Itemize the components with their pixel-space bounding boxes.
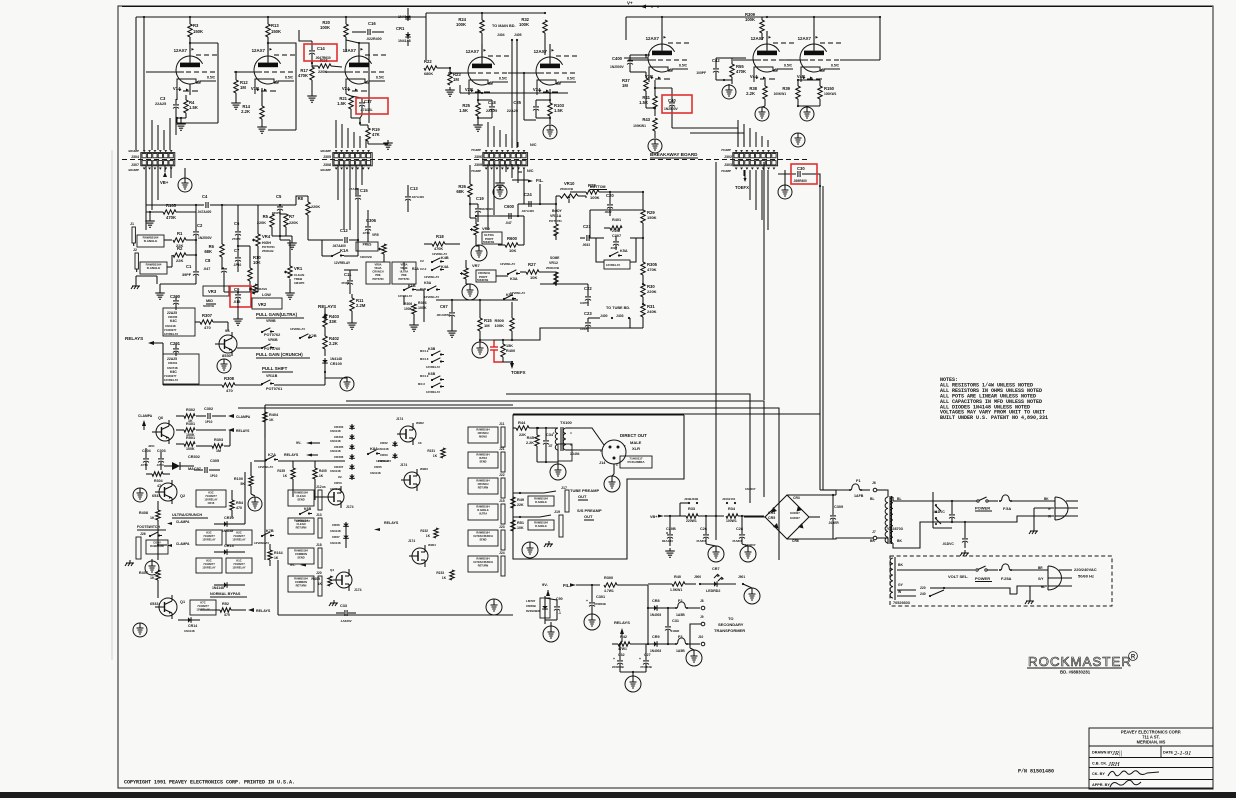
svg-text:2.2M: 2.2M (356, 303, 366, 308)
svg-text:CLAMPA: CLAMPA (176, 542, 190, 546)
ground under J303 circle (778, 185, 792, 199)
svg-text:TOEFX: TOEFX (735, 185, 749, 190)
relay K5A contact2 (427, 289, 429, 291)
resistor R164 1K (268, 550, 272, 560)
svg-text:W902: W902 (416, 421, 424, 425)
svg-text:220K: 220K (647, 289, 657, 294)
resistor R400 15K red-flag (501, 344, 505, 357)
svg-text:+: + (639, 657, 641, 661)
svg-text:C200: C200 (170, 294, 181, 299)
transformer export winding (890, 558, 893, 598)
capacitor C30 red-flag .039R400 (797, 171, 799, 177)
fuse F.5A (999, 500, 1001, 502)
svg-text:C307: C307 (612, 234, 621, 238)
svg-text:.1: .1 (558, 611, 561, 615)
svg-text:R408: R408 (139, 511, 148, 515)
svg-text:82A4B0: 82A4B0 (662, 539, 673, 543)
svg-text:470: 470 (204, 325, 211, 330)
relay K7A contact (265, 459, 267, 461)
svg-text:MALE: MALE (630, 440, 642, 445)
svg-text:J901: J901 (738, 575, 745, 579)
svg-text:.1P10: .1P10 (140, 463, 148, 467)
svg-text:7DJMP: 7DJMP (471, 169, 481, 173)
svg-text:R.ANGLE: R.ANGLE (535, 500, 547, 504)
svg-text:GY: GY (898, 583, 904, 587)
svg-text:CR302: CR302 (188, 455, 200, 459)
ground C67 solid (451, 328, 453, 331)
svg-text:9V-: 9V- (542, 582, 549, 587)
svg-text:2.2M: 2.2M (612, 229, 620, 233)
svg-text:2.2K: 2.2K (329, 341, 338, 346)
svg-text:22A25: 22A25 (486, 109, 497, 113)
svg-text:V2A: V2A (342, 86, 350, 91)
ground V4B lower circle (791, 133, 805, 147)
svg-text:RAWB5164: RAWB5164 (476, 428, 490, 431)
ground rake lowmid (333, 600, 335, 603)
svg-text:270PF: 270PF (232, 237, 241, 241)
board outline lower-left (264, 405, 266, 560)
resistor R12 1M (235, 72, 237, 80)
svg-text:K1B: K1B (420, 287, 427, 291)
wire vertical bus x823 (822, 186, 824, 490)
svg-text:J302: J302 (724, 155, 732, 159)
wire tone block box (590, 210, 604, 238)
resistor R28 100K (586, 190, 599, 194)
diode CR14 (186, 619, 193, 621)
svg-text:C301: C301 (596, 595, 605, 599)
resistor R37 1M (645, 72, 647, 78)
svg-text:R301: R301 (186, 422, 195, 426)
svg-text:ULTRA: ULTRA (479, 513, 487, 516)
resistor R103 1.5K (548, 103, 552, 116)
svg-text:CRUNCH: CRUNCH (372, 270, 383, 274)
svg-text:12VRELAY: 12VRELAY (164, 378, 178, 382)
svg-text:12VRELAY: 12VRELAY (232, 566, 245, 570)
svg-text:71346277: 71346277 (197, 604, 209, 608)
svg-text:BDJMP: BDJMP (320, 168, 331, 172)
svg-text:470: 470 (224, 613, 230, 617)
svg-text:POT5760: POT5760 (372, 277, 384, 281)
resistor R309 100K (761, 17, 763, 20)
resistor R24 100K (480, 20, 484, 33)
svg-text:.47A16L: .47A16L (360, 108, 373, 112)
svg-text:220W1: 220W1 (686, 519, 697, 523)
svg-text:8.5/C: 8.5/C (831, 64, 840, 68)
resistor R23 1M (449, 68, 451, 72)
relay K5B contact top (503, 298, 505, 300)
svg-text:C40: C40 (668, 98, 676, 103)
svg-text:CR100: CR100 (330, 362, 342, 366)
svg-text:J307: J307 (131, 163, 139, 167)
resistor R33 220W1 (686, 514, 698, 518)
ground R100 circle (248, 497, 262, 511)
svg-text:1N4007: 1N4007 (790, 516, 800, 520)
svg-text:NORMAL BYPAS: NORMAL BYPAS (210, 592, 241, 596)
svg-text:K6B: K6B (304, 507, 312, 511)
fuse F2 1A5B (675, 607, 677, 609)
svg-text:ULTRA: ULTRA (400, 270, 409, 274)
title block (1089, 728, 1213, 789)
svg-text:15K: 15K (506, 344, 513, 348)
svg-text:W903: W903 (420, 467, 428, 471)
svg-text:4710R3B: 4710R3B (640, 665, 652, 669)
svg-text:TX100: TX100 (560, 420, 573, 425)
capacitor C16 .022R400 (352, 31, 366, 33)
svg-text:RELAYS: RELAYS (256, 609, 271, 613)
tube V2A 12AX7 triode (345, 56, 372, 84)
svg-text:12VRELAY: 12VRELAY (164, 332, 178, 336)
svg-text:5KHB: 5KHB (400, 266, 407, 270)
svg-text:J201: J201 (148, 444, 155, 448)
wire vr10 feed (539, 184, 541, 204)
tube V4A 12AX7 triode (753, 44, 780, 72)
svg-text:12VRELAY: 12VRELAY (290, 327, 305, 331)
svg-text:F2: F2 (678, 599, 682, 603)
svg-text:R22: R22 (424, 59, 432, 64)
svg-text:W904: W904 (428, 543, 436, 547)
svg-text:1M4/PF: 1M4/PF (294, 281, 305, 285)
svg-text:K4C: K4C (170, 319, 177, 323)
svg-text:RETURN: RETURN (296, 584, 307, 588)
resistor R20 100K (345, 17, 347, 24)
svg-text:1N4007: 1N4007 (745, 487, 756, 491)
red highlight box C17 (356, 98, 388, 114)
transistor Q5 8530 (219, 335, 237, 353)
svg-text:C305: C305 (210, 459, 219, 463)
svg-text:FIL.: FIL. (536, 178, 543, 183)
svg-text:1.5K: 1.5K (554, 108, 563, 113)
transistor Q6 (156, 423, 174, 441)
svg-text:12VRELAY: 12VRELAY (204, 498, 217, 502)
jack J20 COMMON RETURN (288, 576, 314, 592)
svg-text:BL: BL (870, 497, 875, 501)
svg-text:PULL GAIN (CRUNCH): PULL GAIN (CRUNCH) (256, 352, 303, 357)
resistor R31 240K (641, 304, 645, 317)
svg-text:ULTRA: ULTRA (479, 457, 487, 460)
svg-text:10KDVB: 10KDVB (360, 255, 373, 259)
diode CR8 1N4003 (652, 607, 659, 609)
direct-out board outline (513, 415, 684, 559)
svg-text:R39: R39 (782, 86, 790, 91)
svg-text:CR62: CR62 (380, 441, 388, 445)
svg-text:R153: R153 (436, 571, 444, 575)
diode CR100 1N4148 (324, 358, 326, 365)
resistor R405b 1K (313, 468, 317, 479)
svg-text:JRH: JRH (1108, 761, 1120, 768)
relay K4B contact (431, 261, 433, 263)
svg-text:K2B: K2B (309, 334, 317, 338)
svg-text:COPYRIGHT 1991 PEAVEY ELECTRON: COPYRIGHT 1991 PEAVEY ELECTRONICS CORP. … (124, 780, 295, 786)
svg-text:CR201: CR201 (168, 361, 178, 365)
svg-text:CLEAN: CLEAN (297, 494, 306, 498)
svg-text:470: 470 (226, 388, 233, 393)
svg-text:DIRECT OUT: DIRECT OUT (620, 433, 647, 438)
svg-text:1A5B: 1A5B (676, 649, 685, 653)
svg-text:CLAMPA: CLAMPA (138, 414, 153, 418)
transistor Q2 6533 (159, 483, 177, 501)
svg-text:POT0761: POT0761 (266, 387, 282, 391)
svg-text:1.5K: 1.5K (459, 108, 468, 113)
svg-text:RAWB5164: RAWB5164 (534, 520, 548, 524)
svg-text:1M: 1M (484, 323, 490, 328)
svg-text:68K: 68K (456, 189, 464, 194)
relay K1B contact (403, 289, 405, 291)
wire preamp bus a (146, 204, 196, 206)
wire V4B plate (813, 17, 815, 31)
svg-text:50KDVB: 50KDVB (203, 304, 214, 308)
svg-text:12VRELAY: 12VRELAY (426, 365, 440, 369)
svg-text:C14: C14 (317, 46, 325, 51)
svg-text:12AX7: 12AX7 (174, 48, 188, 53)
svg-text:C5: C5 (276, 194, 282, 199)
svg-text:12VRELAY: 12VRELAY (424, 295, 439, 299)
svg-text:RELAYS: RELAYS (125, 336, 143, 341)
resistor R14 2.2K (261, 88, 263, 106)
svg-text:DRAWN BY: DRAWN BY (1092, 751, 1113, 755)
svg-text:RETURN: RETURN (478, 487, 489, 490)
svg-text:7DJMP: 7DJMP (721, 169, 731, 173)
svg-text:.1P10: .1P10 (156, 463, 164, 467)
svg-text:250K3VB: 250K3VB (560, 187, 574, 191)
svg-text:BDJMP: BDJMP (128, 149, 139, 153)
svg-text:8530: 8530 (222, 353, 232, 358)
svg-text:DATE: DATE (1163, 751, 1174, 755)
svg-text:R1: R1 (177, 231, 183, 236)
svg-text:SEND: SEND (480, 539, 487, 542)
svg-text:RAWB5164: RAWB5164 (534, 496, 548, 500)
svg-text:71346277: 71346277 (203, 534, 215, 538)
svg-text:R306: R306 (404, 302, 412, 306)
ground footswitch rake (129, 560, 131, 563)
wire V4A plate (766, 31, 768, 33)
svg-text:V4A: V4A (750, 74, 758, 79)
svg-text:8.5/C: 8.5/C (567, 77, 576, 81)
svg-text:CR67: CR67 (332, 535, 340, 539)
wires J307 down (145, 166, 147, 230)
resistor R1 22K (173, 238, 186, 242)
wire J1 wiring (164, 239, 172, 241)
resistor R408 1K (156, 510, 160, 520)
pot VR3 MID box (203, 286, 229, 296)
svg-text:R5: R5 (263, 214, 269, 219)
svg-text:K1A: K1A (340, 248, 348, 253)
svg-text:5KHA: 5KHA (374, 266, 381, 270)
svg-text:R407: R407 (139, 571, 148, 575)
svg-text:J174: J174 (408, 539, 415, 543)
svg-text:R400: R400 (506, 349, 515, 353)
svg-text:POWER: POWER (975, 576, 990, 581)
svg-text:VR10: VR10 (564, 181, 575, 186)
svg-text:1N4148: 1N4148 (330, 439, 341, 443)
svg-text:R100: R100 (234, 477, 243, 481)
svg-text:1K: 1K (319, 474, 324, 478)
resistor R55 470K (730, 64, 734, 77)
svg-text:J2: J2 (133, 248, 137, 252)
relay K3C box2 (196, 530, 222, 545)
svg-text:100KW1: 100KW1 (824, 92, 837, 96)
svg-text:FOOTSWITCH: FOOTSWITCH (137, 525, 160, 529)
resistor R6 68K (220, 244, 224, 257)
wire r27 to vr12 (555, 272, 557, 286)
svg-text:7DJMP: 7DJMP (721, 148, 731, 152)
svg-text:R300: R300 (604, 576, 613, 580)
svg-text:RAWB5164: RAWB5164 (294, 490, 308, 494)
svg-text:V1A: V1A (173, 86, 181, 91)
wire preamp bus b (222, 267, 224, 269)
svg-text:39PF: 39PF (182, 273, 192, 277)
svg-text:K7A: K7A (268, 452, 276, 457)
svg-text:1NPPF: 1NPPF (580, 301, 589, 305)
jack J23 ULTRA/CRUNCH SEND (468, 530, 498, 546)
resistor R43 100KW1 (653, 118, 657, 131)
fuse F3 1A5B (675, 643, 677, 645)
svg-text:BL: BL (897, 497, 902, 501)
svg-text:BREAKAWAY BOARD: BREAKAWAY BOARD (650, 152, 698, 157)
wire preamp bottom rail (274, 384, 325, 386)
wire V3B plate (661, 17, 663, 31)
svg-text:R: R (1131, 654, 1136, 660)
svg-text:J1: J1 (130, 222, 134, 226)
svg-text:TO MAIN BD.: TO MAIN BD. (492, 24, 516, 28)
svg-text:470K: 470K (298, 73, 308, 78)
svg-text:22K: 22K (519, 433, 526, 437)
svg-text:1P10: 1P10 (210, 474, 218, 478)
svg-text:CK. BY: CK. BY (1092, 772, 1105, 776)
svg-text:K6B: K6B (428, 372, 436, 376)
pot VR2 LOW box (252, 298, 282, 309)
svg-text:CR9: CR9 (652, 635, 660, 639)
svg-text:12VRELAY: 12VRELAY (258, 465, 273, 469)
svg-text:1N4003: 1N4003 (650, 613, 661, 617)
svg-text:RAWB5164: RAWB5164 (476, 531, 490, 534)
svg-text:1N4148: 1N4148 (378, 447, 389, 451)
svg-text:680K: 680K (424, 72, 433, 76)
V+ rail right tubes (626, 16, 880, 18)
ground rake dvc (964, 550, 966, 553)
svg-text:.47: .47 (548, 444, 553, 448)
diode CR10 1N4148 (222, 523, 229, 525)
jack J2 input (135, 253, 138, 269)
wire V4A grid (732, 57, 746, 59)
svg-text:470K: 470K (647, 267, 657, 272)
svg-text:J174: J174 (396, 417, 403, 421)
svg-text:R.ANGLE: R.ANGLE (144, 239, 158, 243)
svg-text:12VRELAY: 12VRELAY (232, 538, 245, 542)
svg-text:J18: J18 (316, 543, 322, 547)
resistor R30 220K (641, 284, 645, 297)
resistor R44 22K (516, 426, 529, 430)
svg-text:VR9B: VR9B (266, 319, 276, 323)
svg-text:12VRELAY: 12VRELAY (426, 390, 440, 394)
connector J306 7DJMP (483, 153, 528, 166)
svg-text:J6: J6 (872, 481, 876, 485)
svg-text:100KW1: 100KW1 (633, 124, 646, 128)
ground rake mains (1033, 528, 1035, 531)
svg-text:8.5/C: 8.5/C (784, 64, 793, 68)
svg-text:PRE: PRE (401, 273, 407, 277)
resistor R300 4.7W1 (604, 583, 617, 587)
svg-text:.01DVC: .01DVC (942, 542, 954, 546)
svg-text:BK: BK (870, 539, 875, 543)
svg-text:1K: 1K (426, 534, 431, 538)
svg-text:2200R3B: 2200R3B (612, 665, 624, 669)
svg-text:C67: C67 (440, 304, 448, 309)
svg-text:J8: J8 (700, 599, 704, 603)
ground V4A left circle (722, 85, 736, 99)
svg-text:100KW1: 100KW1 (774, 92, 787, 96)
svg-text:12AX7: 12AX7 (466, 49, 480, 54)
resistor R22 680K (424, 66, 437, 70)
svg-text:PRE: PRE (375, 273, 381, 277)
resistor R25 1.5K (476, 103, 480, 116)
svg-text:1N4148: 1N4148 (212, 586, 224, 590)
svg-text:V4B: V4B (797, 74, 805, 79)
relay K8A contact (367, 453, 369, 455)
svg-text:F.5A: F.5A (1003, 506, 1011, 511)
svg-text:K3B: K3B (428, 347, 436, 351)
svg-text:J7: J7 (872, 530, 876, 534)
resistor R10 10K (248, 268, 252, 281)
svg-text:1N4148: 1N4148 (378, 459, 389, 463)
svg-text:.047A400: .047A400 (411, 195, 424, 199)
svg-text:J10BJ10B: J10BJ10B (684, 497, 699, 501)
pot PRES 10KDVB box (356, 242, 378, 251)
ground Q2 circle (133, 488, 147, 502)
svg-text:R401: R401 (612, 218, 621, 222)
svg-text:1N2500V: 1N2500V (198, 236, 213, 240)
ground R105 solid (149, 218, 151, 221)
svg-text:MID: MID (206, 299, 213, 303)
svg-text:K8A: K8A (370, 446, 378, 451)
svg-text:J20: J20 (316, 571, 322, 575)
ground V3B circle (648, 139, 662, 153)
svg-text:K1C: K1C (236, 558, 241, 562)
svg-text:J305: J305 (323, 155, 331, 159)
svg-text:J9: J9 (700, 615, 704, 619)
wire vertical bus x820 (819, 186, 821, 414)
svg-text:R40: R40 (674, 575, 681, 579)
diode CR9 1N4003 (652, 643, 659, 645)
resistor R41 1.5K (653, 96, 657, 109)
svg-text:BK: BK (897, 539, 902, 543)
ground C301 circle (584, 614, 600, 630)
ground Q5 circle (217, 359, 231, 373)
svg-text:C2: C2 (197, 223, 203, 228)
wires J308 down (337, 165, 339, 200)
svg-text:R27: R27 (528, 262, 536, 267)
svg-text:SOME: SOME (550, 256, 559, 260)
svg-text:2.2K: 2.2K (526, 441, 534, 445)
svg-text:COMMON: COMMON (295, 552, 307, 556)
jack J1 input (132, 227, 135, 243)
svg-text:V3A: V3A (533, 87, 541, 92)
resistor R403 33K (323, 314, 327, 327)
svg-text:OUT: OUT (578, 494, 587, 499)
svg-text:150K: 150K (271, 29, 281, 34)
jack J21 ULTRA SEND (468, 452, 498, 468)
jack J15 R.ANGLE ULTRA (468, 504, 498, 520)
svg-text:C24: C24 (524, 192, 532, 197)
resistor R21 1.5K (349, 96, 353, 109)
svg-text:100K: 100K (320, 25, 330, 30)
svg-text:R501: R501 (186, 436, 195, 440)
svg-text:R150: R150 (824, 86, 835, 91)
wire tone out right (610, 191, 643, 193)
svg-text:LOW: LOW (262, 293, 271, 297)
svg-text:BDJMP: BDJMP (320, 149, 331, 153)
svg-text:R18: R18 (436, 234, 444, 239)
svg-text:.1P10: .1P10 (233, 263, 242, 267)
